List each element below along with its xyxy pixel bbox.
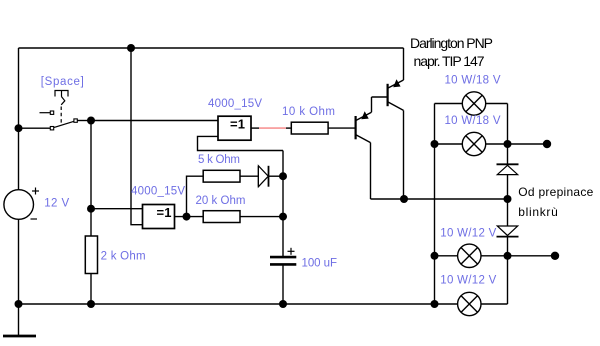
switch NC stub [40,112,51,114]
emitter diagonal [388,80,404,88]
wire Q1 emitter to Q2 base [372,96,388,98]
wire 20k to node [240,216,283,218]
node junction dot top rail x131 [127,44,135,52]
svg-text:5 k Ohm: 5 k Ohm [198,154,240,166]
node junction dot x91 y208.7 [87,205,95,213]
svg-text:100 uF: 100 uF [302,258,338,270]
wire to 10k [286,127,291,129]
lamp L3 10W/12V [458,244,481,267]
node junction dot cap-node y216 [279,213,287,221]
wire lower lamp row1 [435,255,556,257]
node junction dot cap bottom [279,300,287,308]
switch blade [54,121,74,127]
wire 10k to Q1 base [328,127,356,129]
switch actuator dashed link [60,107,62,125]
node junction dot lamp column bottom [431,300,439,308]
collector diagonal [356,135,371,143]
resistor R4 2 k Ohm [85,236,97,304]
svg-text:10 W/18 V: 10 W/18 V [445,75,501,87]
wire red segment [259,127,286,129]
node junction dot cap-node y176 [279,172,287,180]
wire upper lamp row2 [435,143,548,145]
node junction dot row2 left [431,140,439,148]
svg-text:12 V: 12 V [44,198,69,210]
svg-text:blinkrù: blinkrù [518,205,558,219]
wire switch node to gate U1 input A [91,120,218,122]
wire Q1 collector to junction [371,198,405,200]
resistor R3 20 k Ohm [203,211,240,223]
svg-text:10 k Ohm: 10 k Ohm [282,106,335,118]
wire node to gate U2 input A [91,208,143,210]
diode D2 up [497,164,519,174]
svg-text:20 k Ohm: 20 k Ohm [196,195,246,207]
wire collector line to blinker node [404,198,508,200]
svg-text:Darlington PNP: Darlington PNP [410,35,493,51]
lamp L2 10W/18V [462,132,485,155]
wire bottom rail [19,303,508,305]
svg-text:4000_15V: 4000_15V [131,186,185,198]
lamp L4 10W/12V [458,292,481,315]
capacitor C1 100 uF [270,248,296,265]
switch terminal squares [50,127,53,130]
battery V1 12V [4,128,39,304]
node junction dot row2 right [504,140,512,148]
wire right column mid [507,199,509,226]
wire U2 output [175,216,204,218]
wire cap-node column [282,151,284,257]
terminal dot upper [543,140,551,148]
emitter arrow [361,111,368,119]
wire right column upper [507,104,509,165]
wire column x131 from top rail to U2 input B [131,48,143,225]
terminal dot lower [551,252,559,260]
transistor Q1 PNP [356,97,372,199]
emitter arrow [393,79,400,87]
wire feedback node up to 5k row [187,176,204,216]
svg-text:10 W/18 V: 10 W/18 V [445,115,501,127]
wire U1 output stub [251,127,259,129]
switch S1 [Space] [15,91,92,133]
node junction dot collectors [400,195,408,203]
diode D3 down [497,226,519,237]
wire 5k to diode [240,175,258,177]
transistor Q2 PNP [388,48,404,199]
node junction dot blinker [504,195,512,203]
node junction dot switch output [87,117,95,125]
node junction dot lower row1 left [431,252,439,260]
wire top +12V rail [19,47,404,49]
svg-text:4000_15V: 4000_15V [208,98,262,110]
wire diode to node [269,175,284,177]
svg-text:10 W/12 V: 10 W/12 V [440,228,496,240]
resistor R1 10 k Ohm [291,122,328,134]
wire switch to node [77,120,91,122]
node junction dot x91 bottom [87,300,95,308]
wire to switch [19,127,51,129]
wire lamp left column [434,104,436,305]
wire gate U1 input B feedback [198,136,284,150]
ground [3,304,36,336]
svg-text:[Space]: [Space] [41,76,84,88]
svg-text:=1: =1 [230,117,245,132]
svg-text:2 k Ohm: 2 k Ohm [101,251,146,263]
gate U1 XOR 4000_15V [218,116,251,140]
switch actuator zigzag [61,97,65,105]
gate U2 XOR 4000_15V [143,205,175,229]
svg-text:=1: =1 [157,205,172,220]
node junction dot switch-left column [15,124,23,132]
svg-text:napr. TIP 147: napr. TIP 147 [414,53,485,69]
svg-text:10 W/12 V: 10 W/12 V [440,275,496,287]
wire upper lamp row1 [435,103,508,105]
wire column x91 down [90,121,92,237]
wire left column top [18,48,20,129]
lamp L1 10W/18V [462,92,485,115]
collector diagonal [388,102,404,111]
emitter diagonal [356,112,372,120]
node junction dot bottom-left [15,300,23,308]
node junction dot U2 output [183,213,191,221]
node junction dot lower row1 right [504,252,512,260]
switch pushbutton cap [55,91,68,97]
resistor R2 5 k Ohm [203,170,240,182]
diode D1 [258,166,268,187]
svg-text:Od prepinace: Od prepinace [518,185,593,199]
